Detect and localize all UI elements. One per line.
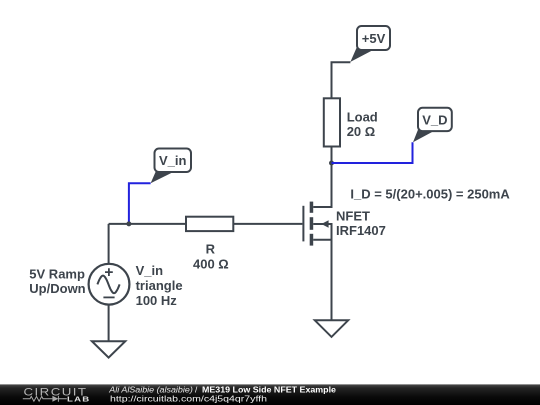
svg-text:V_in: V_in xyxy=(159,153,187,168)
channel bar middle xyxy=(310,217,314,230)
svg-text:NFET: NFET xyxy=(336,209,370,224)
arrowhead pointing to channel xyxy=(321,220,328,228)
wire: node A to resistor R left terminal xyxy=(109,223,186,225)
wire: V_D flag to drain node (net V_D) xyxy=(332,142,413,163)
wire: V1 bottom lead to ground xyxy=(108,304,110,341)
ground GND1 below V1 xyxy=(92,341,125,357)
svg-text:Load: Load xyxy=(347,109,378,124)
svg-text:triangle: triangle xyxy=(136,278,183,293)
svg-text:LAB: LAB xyxy=(67,395,91,404)
footer bar xyxy=(0,384,540,405)
resistor Load (20 ohm) body xyxy=(324,98,340,146)
resistor R (400 ohm) body xyxy=(186,217,233,231)
sine wave glyph xyxy=(97,276,119,294)
wire: resistor R to gate of Q1 xyxy=(233,223,302,225)
source lead xyxy=(313,240,331,320)
svg-text:Ali AlSaibie (alsaibie): Ali AlSaibie (alsaibie) xyxy=(108,385,193,394)
wire: V_in flag to node A (net V_in) xyxy=(129,183,151,224)
channel bar bottom xyxy=(310,234,314,246)
body lead with arrow xyxy=(313,224,331,240)
flag +5V xyxy=(350,26,390,62)
flag V_D xyxy=(413,108,452,143)
svg-text:V_in: V_in xyxy=(136,263,164,278)
wire: V1 top lead to node A xyxy=(108,224,110,264)
svg-text:V_D: V_D xyxy=(422,112,447,127)
svg-text:5V Ramp: 5V Ramp xyxy=(29,266,85,281)
flag V_in xyxy=(151,149,191,184)
svg-text:100 Hz: 100 Hz xyxy=(136,293,178,308)
ground GND2 below NFET source xyxy=(315,320,348,337)
svg-text:Up/Down: Up/Down xyxy=(29,281,85,296)
svg-text:IRF1407: IRF1407 xyxy=(336,223,386,238)
svg-text:ME319 Low Side NFET Example: ME319 Low Side NFET Example xyxy=(202,385,336,394)
wire: Load top to +5V corner xyxy=(332,62,351,98)
wire: drain node to Load bottom xyxy=(331,147,333,164)
junction node A xyxy=(126,221,131,226)
svg-text:R: R xyxy=(206,242,216,257)
svg-text:+5V: +5V xyxy=(362,31,386,46)
drain lead xyxy=(313,163,331,207)
svg-text:20 Ω: 20 Ω xyxy=(347,124,376,139)
plus sign xyxy=(105,268,113,276)
CircuitLab logo wire with resistor and diode xyxy=(23,396,67,402)
channel bar top xyxy=(310,202,314,213)
svg-text:I_D = 5/(20+.005) = 250mA: I_D = 5/(20+.005) = 250mA xyxy=(350,187,510,202)
gate plate xyxy=(302,206,304,242)
svg-text:http://circuitlab.com/c4j5q4qr: http://circuitlab.com/c4j5q4qr7yffh xyxy=(110,395,268,404)
voltage source V1 xyxy=(89,264,130,305)
svg-text:400 Ω: 400 Ω xyxy=(193,257,229,272)
junction node D (drain) xyxy=(329,161,334,166)
transistor Q1 NFET IRF1407 xyxy=(303,163,331,320)
minus sign xyxy=(103,296,114,298)
